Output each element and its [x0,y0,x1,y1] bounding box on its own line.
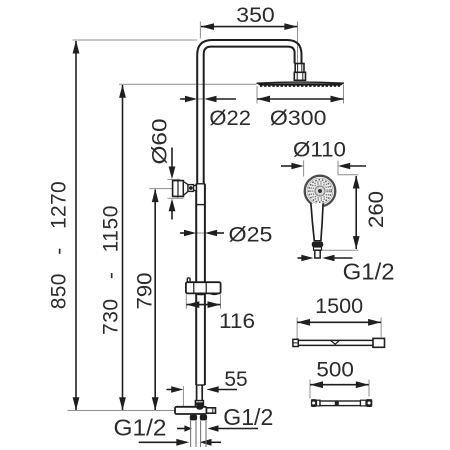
svg-text:500: 500 [316,359,354,382]
connector left [190,415,197,421]
dimension 500 [310,381,369,388]
wall bracket block [188,185,194,192]
hand shower tube [315,250,320,258]
hose 1500 body [298,339,373,341]
dimension 730-1150 [119,85,126,411]
dimension O60 [169,148,176,220]
overhead shower head nozzles [260,85,340,87]
pipe riser with top arm (inner line) [204,47,295,184]
hand shower nozzle rings [309,180,331,202]
lower pipe top edge [196,183,205,185]
dim hairline across pipe at O25 [196,232,205,234]
hose 1500 left fitting [293,339,298,346]
hose 500 left fitting [311,399,317,407]
extension 500 right [368,380,370,397]
hose 500 body [320,401,361,406]
shower head nut [294,72,305,80]
svg-text:116: 116 [219,310,255,333]
extension 260 bottom [322,249,359,251]
svg-text:Ø22: Ø22 [209,107,251,130]
svg-text:Ø110: Ø110 [293,139,346,162]
extension baseline bottom [68,410,197,412]
extension O60 bottom [168,197,184,199]
valve body [175,407,207,414]
extension 1500 left [296,318,298,340]
wall bracket cone [183,182,188,196]
svg-text:730 - 1150: 730 - 1150 [100,206,123,336]
extension line bracket centerline [150,188,185,190]
svg-text:Ø25: Ø25 [229,223,273,246]
extension O60 top [168,179,181,181]
extension 116 left [185,295,187,309]
hand shower face outer [305,176,336,207]
svg-text:350: 350 [236,4,275,27]
extension O300 left [256,86,258,104]
extension O110 left [303,161,305,177]
hand shower nut [312,242,323,247]
connector pipe right [200,420,202,447]
lower pipe (O25) [195,184,197,385]
hose 1500 break mark [331,340,340,344]
extension 350 right [297,22,299,71]
slider bottom bumps [195,293,206,294]
extension flange vertical [177,178,179,198]
dimension O300 [257,96,344,103]
dimension bottom pair1 (G1/2 right leader) [177,425,258,432]
svg-text:Ø60: Ø60 [149,119,172,165]
svg-text:G1/2: G1/2 [223,404,273,430]
dimension bottom pair2 (G1/2 left leader) [139,439,221,446]
overhead shower head top surface [257,82,345,83]
extension 1500 right [380,318,382,338]
dimension 116 [186,301,220,308]
connector right [200,415,207,421]
dimension 1500 [297,319,381,326]
hand shower hub [315,186,325,196]
slider body [186,282,221,293]
wall bracket flange [173,181,184,197]
dim hairline across pipe at O22 [197,98,205,100]
dimension 55 [167,386,238,392]
extension line top (pipe top level) [73,39,198,41]
valve inlet block [195,401,203,407]
connector pipe left [190,420,192,447]
dimension 260 [353,175,360,249]
dimension O25 [180,230,224,236]
extension O300 right [343,85,345,104]
pipe riser with top arm (outer line) [197,40,301,184]
wall bracket screw dot [189,186,193,190]
hose 500 right fitting [361,400,367,406]
extension 350 left [199,22,201,39]
svg-text:Ø300: Ø300 [270,107,327,130]
extension 116 right [220,295,222,309]
lower pipe collar line [196,204,205,206]
extension line head bottom level [119,83,257,85]
svg-text:850 - 1270: 850 - 1270 [47,181,70,309]
dimension 350 [201,23,297,30]
extension 55 left [182,386,184,408]
dimension O22 [180,96,236,102]
svg-text:790: 790 [134,273,157,310]
svg-text:G1/2: G1/2 [114,414,167,440]
dimension 850-1270 [73,40,80,410]
extension 260 top [338,174,359,176]
dimension G1/2 hand shower [298,255,353,261]
slider lever [187,278,190,283]
shower arm joint [295,64,304,73]
svg-text:1500: 1500 [315,295,363,318]
extension O110 right [337,161,339,176]
hand shower handle [311,203,323,240]
valve nut ball [196,404,203,409]
valve knob [207,408,216,413]
dimension 790 [152,189,159,410]
svg-text:55: 55 [224,368,247,391]
extension 500 left [309,380,311,399]
narrow tube above valve [196,385,198,401]
hose 1500 right fitting [373,338,385,347]
svg-text:260: 260 [365,191,388,228]
lower pipe bottom step [196,384,205,386]
dimension O110 [281,163,366,169]
overhead shower head body [257,83,345,85]
svg-text:G1/2: G1/2 [343,258,395,284]
wall bracket neck [194,186,197,191]
